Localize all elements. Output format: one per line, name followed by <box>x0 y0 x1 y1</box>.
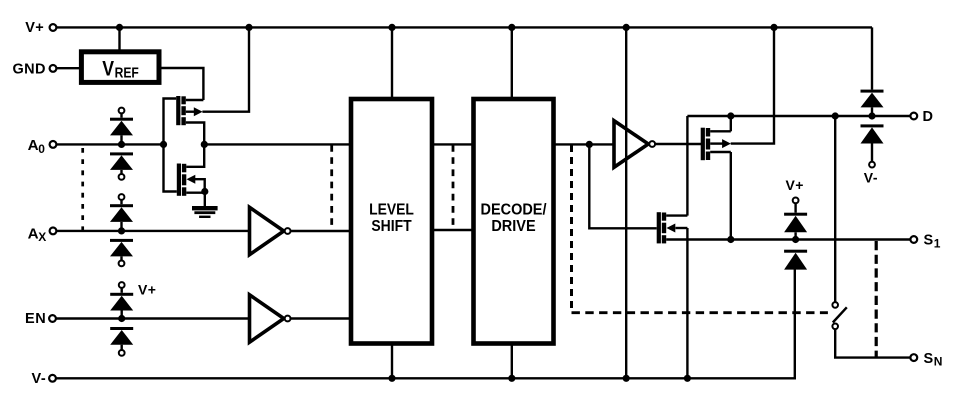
svg-text:V+: V+ <box>25 20 44 36</box>
dashed expansion A0/AX <box>81 148 84 230</box>
node A0 inverter output <box>201 141 208 148</box>
wire D line to switch <box>834 117 836 302</box>
buffer EN inverter <box>250 295 291 342</box>
gate wire A0 CMOS pair <box>164 99 177 192</box>
wire M2 drain to D line <box>686 116 688 216</box>
node P1 body at V+ rail <box>245 24 252 31</box>
wire DECODE V+ feed <box>511 29 513 98</box>
wire A0 input <box>57 143 163 145</box>
dashed control line to switch <box>572 311 828 314</box>
wire A0 row to LEVEL SHIFT <box>205 143 352 145</box>
node driver branch <box>586 141 593 148</box>
block LEVEL SHIFT <box>351 99 432 344</box>
wire switch to SN <box>835 329 910 357</box>
wire GND to VREF <box>57 67 80 69</box>
clamp diodes D <box>861 27 884 185</box>
wire EN row to LEVEL SHIFT <box>291 317 352 319</box>
svg-text:A: A <box>28 225 39 242</box>
inverter U2 <box>614 121 655 168</box>
svg-text:V-: V- <box>32 371 47 387</box>
wire AX input <box>57 230 250 232</box>
wire U2 output to M1 gate <box>655 143 701 145</box>
node feedthrough at V- rail <box>623 375 630 382</box>
svg-text:V-: V- <box>864 169 878 185</box>
terminal GND <box>13 61 57 77</box>
buffer AX inverter <box>250 207 291 254</box>
transistor M2 <box>657 212 688 243</box>
wire VREF top feed <box>118 29 120 50</box>
dashed expansion left of LEVEL SHIFT <box>330 145 333 230</box>
wire DECODE V- feed <box>511 344 513 377</box>
wire D line <box>687 115 910 117</box>
terminal D <box>910 109 933 125</box>
svg-text:SHIFT: SHIFT <box>371 218 412 235</box>
svg-text:A: A <box>28 137 39 154</box>
terminal V+ <box>25 20 56 36</box>
svg-text:V+: V+ <box>138 282 156 298</box>
node feedthrough at V+ rail <box>623 24 630 31</box>
wire M1 drain to D line <box>730 117 732 132</box>
svg-text:1: 1 <box>934 237 941 251</box>
wire branch to M2 gate <box>589 146 656 229</box>
dashed expansion right of DECODE <box>570 145 573 311</box>
node M1 source at S1 <box>727 236 734 243</box>
node M1 drain at D <box>727 112 734 119</box>
svg-text:S: S <box>924 233 934 249</box>
terminal S1 <box>910 233 940 251</box>
svg-text:V+: V+ <box>786 177 804 193</box>
terminal SN <box>910 351 942 369</box>
wire AX row to LEVEL SHIFT <box>291 230 352 232</box>
transistor N1 <box>177 146 205 196</box>
wire V- rail <box>56 270 795 379</box>
svg-text:S: S <box>924 351 934 367</box>
wire V+/V- feedthrough <box>625 29 627 378</box>
block DECODE/DRIVE <box>474 99 554 344</box>
wire P1 body to V+ <box>202 29 249 112</box>
wire VREF output to P1 source <box>162 68 204 100</box>
node N1 source/body <box>201 188 208 195</box>
wire M1 source to S1 line <box>730 152 732 240</box>
dashed expansion S1/SN <box>875 241 878 357</box>
svg-text:X: X <box>38 230 46 244</box>
terminal EN <box>25 311 56 327</box>
wire S1 line <box>666 238 910 240</box>
svg-text:0: 0 <box>38 142 45 156</box>
node M1 body at V+ rail <box>770 24 777 31</box>
wire LEVEL SHIFT V+ feed <box>391 29 393 98</box>
wire M2 body to V- <box>686 228 688 377</box>
svg-text:GND: GND <box>13 61 46 77</box>
svg-text:EN: EN <box>25 311 46 327</box>
wire V+ rail <box>57 26 872 28</box>
svg-text:DRIVE: DRIVE <box>491 218 535 235</box>
transistor M1 <box>701 128 731 161</box>
svg-text:LEVEL: LEVEL <box>369 202 414 219</box>
wire DECODE output row1 <box>554 143 615 145</box>
block VREF U1 <box>81 52 159 83</box>
svg-text:REF: REF <box>115 65 139 82</box>
node switch branch at D <box>832 112 839 119</box>
terminal A0 <box>28 137 57 156</box>
switch SW1 <box>832 302 846 329</box>
ESD diodes A0 <box>110 108 133 180</box>
wire row2 between boxes <box>432 229 473 231</box>
ESD diodes EN <box>110 282 156 356</box>
node D clamp <box>868 112 875 119</box>
node at V- rail <box>388 375 395 382</box>
dashed expansion between boxes <box>452 145 455 230</box>
svg-text:DECODE/: DECODE/ <box>481 202 548 219</box>
wire EN input <box>56 317 250 319</box>
wire row1 between boxes <box>432 143 473 145</box>
node M2 body at V- rail <box>684 375 691 382</box>
ground <box>192 193 218 218</box>
svg-text:D: D <box>923 109 933 125</box>
wire M1 body to V+ <box>731 29 774 144</box>
node at V+ rail <box>508 24 515 31</box>
terminal V- <box>32 371 56 387</box>
clamp diodes S1 <box>784 177 807 270</box>
svg-text:V: V <box>102 57 114 80</box>
transistor P1 <box>176 96 204 143</box>
node at V- rail <box>508 375 515 382</box>
terminal AX <box>28 225 57 243</box>
node at V+ rail <box>388 24 395 31</box>
wire LEVEL SHIFT V- feed <box>391 344 393 377</box>
node V+/VREF junction <box>116 24 123 31</box>
ESD diodes AX <box>110 194 133 266</box>
svg-text:N: N <box>934 355 943 369</box>
node A0 gate <box>160 141 167 148</box>
